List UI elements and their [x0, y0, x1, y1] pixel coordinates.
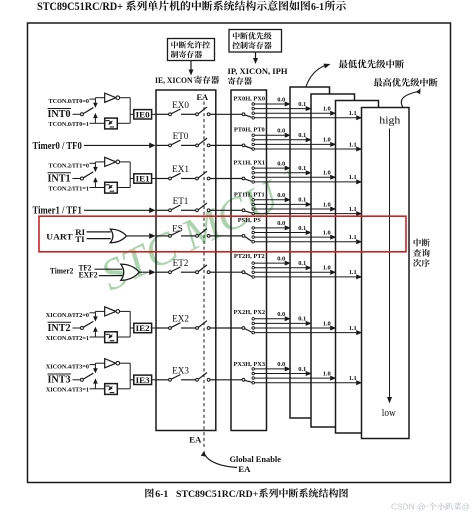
- svg-text:0.1: 0.1: [298, 197, 306, 204]
- curved arrow to lowest-priority label: [306, 66, 325, 87]
- svg-text:6-1: 6-1: [155, 489, 168, 500]
- enable switch EX3: [156, 379, 169, 381]
- wire from IE box to priority selector: [216, 379, 242, 381]
- selector switch PX0H, PX0: [242, 113, 245, 116]
- priority wire 0.0 of PX3H, PX3: [255, 368, 285, 370]
- svg-text:IE, XICON: IE, XICON: [155, 75, 193, 85]
- selector switch PT1H, PT1: [242, 209, 245, 212]
- svg-text:1.0: 1.0: [323, 320, 331, 327]
- svg-text:INT2: INT2: [48, 323, 71, 334]
- junction wire: [129, 98, 131, 124]
- enable switch ET2: [156, 271, 169, 273]
- priority wire 0.0 of PX0H, PX0: [255, 103, 285, 105]
- priority wire 0.1 of PX3H, PX3: [255, 373, 306, 375]
- priority wire 0.0 of PT2H, PT2: [255, 262, 285, 264]
- UART row highlight (red annotation rectangle): [39, 216, 406, 252]
- selector switch PX3H, PX3: [242, 378, 245, 381]
- switch INT0 mode select: [73, 113, 81, 115]
- wire from IE box to priority selector: [216, 209, 242, 211]
- switch INT3 mode select: [73, 379, 81, 381]
- priority wire 1.0 of PX3H, PX3: [255, 377, 331, 379]
- caption 图6-1 STC89C51RC/RD+ interrupt system diagram: [145, 488, 153, 497]
- EA switch: [196, 113, 199, 116]
- priority wire 1.1 of PSH, PS: [255, 241, 357, 243]
- svg-text:PX0H, PX0: PX0H, PX0: [233, 95, 265, 102]
- svg-text:XICON.0/IT2=1: XICON.0/IT2=1: [46, 335, 89, 342]
- EA global-enable dashed line: [203, 102, 205, 450]
- svg-text:0.1: 0.1: [298, 260, 306, 267]
- svg-text:INT0: INT0: [48, 109, 71, 120]
- EA switch: [196, 378, 199, 381]
- selector switch PX2H, PX2: [242, 327, 245, 330]
- svg-text:0.0: 0.0: [277, 192, 285, 199]
- wire IE3 to IE register: [152, 379, 156, 381]
- svg-text:UART: UART: [46, 231, 72, 241]
- svg-text:0.0: 0.0: [277, 311, 285, 318]
- svg-text:EXF2: EXF2: [79, 270, 99, 280]
- svg-text:Timer0 / TF0: Timer0 / TF0: [33, 141, 82, 152]
- priority wire 0.1 of PX0H, PX0: [255, 108, 306, 110]
- svg-text:0.1: 0.1: [298, 366, 306, 373]
- svg-text:@: @: [462, 502, 471, 512]
- svg-text:ET2: ET2: [173, 258, 189, 268]
- svg-text:0.0: 0.0: [277, 220, 285, 227]
- enable flag box IE3: [134, 375, 152, 384]
- box: interrupt priority control register (top label box B): [229, 30, 282, 53]
- svg-text:EA: EA: [189, 435, 202, 445]
- enable switch EX0: [156, 113, 169, 115]
- svg-text:low: low: [382, 408, 397, 419]
- priority column 0.1 (rect 2): [311, 94, 355, 427]
- interrupt polling order arrow (high to low): [389, 129, 391, 399]
- falling edge detector for INT1: [95, 187, 104, 189]
- EA switch: [196, 235, 199, 238]
- priority wire 0.0 of PX1H, PX1: [255, 167, 285, 169]
- svg-text:STC89C51RC/RD+: STC89C51RC/RD+: [37, 1, 123, 13]
- svg-text:0.1: 0.1: [298, 165, 306, 172]
- svg-text:PX3H, PX3: PX3H, PX3: [233, 361, 265, 368]
- wire Timer0 / TF0 to IE register: [84, 144, 150, 146]
- svg-text:IE2: IE2: [136, 323, 151, 333]
- inverter for INT0 level mode: [95, 97, 104, 99]
- priority wire 1.1 of PT2H, PT2: [255, 276, 357, 278]
- svg-text:EA: EA: [196, 93, 208, 102]
- inverter for INT1 level mode: [95, 161, 104, 163]
- svg-text:PX2H, PX2: PX2H, PX2: [233, 309, 265, 316]
- IP/XICON/IPH priority register box U2: [231, 90, 267, 431]
- wire from IE box to priority selector: [216, 178, 242, 180]
- svg-text:1.0: 1.0: [323, 229, 331, 236]
- svg-text:TCON.2/IT1=0: TCON.2/IT1=0: [49, 162, 90, 169]
- priority wire 0.0 of PT0H, PT0: [255, 134, 285, 136]
- EA switch: [196, 177, 199, 180]
- lower contact (edge mode): [90, 122, 96, 124]
- svg-text:EX0: EX0: [172, 100, 189, 110]
- upper contact (level mode): [90, 312, 96, 314]
- outer frame: [28, 23, 451, 483]
- svg-text:1.0: 1.0: [323, 106, 331, 113]
- enable switch EX2: [156, 327, 169, 329]
- svg-text:XICON.4/IT3=1: XICON.4/IT3=1: [46, 387, 89, 394]
- priority wire 0.0 of PT1H, PT1: [255, 199, 285, 201]
- svg-text:IE0: IE0: [136, 110, 151, 120]
- svg-text:INT1: INT1: [48, 173, 71, 184]
- priority wire 1.1 of PT1H, PT1: [255, 213, 357, 215]
- priority wire 0.1 of PX2H, PX2: [255, 322, 306, 324]
- svg-text:PSH, PS: PSH, PS: [238, 217, 262, 224]
- svg-text:PT2H, PT2: PT2H, PT2: [234, 253, 265, 260]
- svg-text:0.1: 0.1: [298, 101, 306, 108]
- priority wire 0.1 of PX1H, PX1: [255, 172, 306, 174]
- svg-text:1.1: 1.1: [349, 174, 357, 181]
- falling edge detector for INT2: [95, 336, 104, 338]
- EA switch: [196, 327, 199, 330]
- svg-text:1.1: 1.1: [349, 269, 357, 276]
- priority wire 0.0 of PX2H, PX2: [255, 318, 285, 320]
- svg-text:TCON.2/IT1=1: TCON.2/IT1=1: [49, 185, 90, 192]
- priority wire 1.1 of PX2H, PX2: [255, 332, 357, 334]
- selector switch PT2H, PT2: [242, 271, 245, 274]
- junction wire: [129, 162, 131, 188]
- svg-text:1.0: 1.0: [323, 137, 331, 144]
- svg-text:Timer2: Timer2: [50, 266, 74, 276]
- svg-text:Timer1 / TF1: Timer1 / TF1: [33, 206, 82, 217]
- svg-text:EX2: EX2: [172, 314, 189, 324]
- priority wire 1.0 of PSH, PS: [255, 236, 331, 238]
- priority wire 1.0 of PT0H, PT0: [255, 143, 331, 145]
- lower contact (edge mode): [90, 388, 96, 390]
- svg-text:ET1: ET1: [173, 196, 189, 206]
- priority wire 1.0 of PX1H, PX1: [255, 176, 331, 178]
- priority wire 1.1 of PX1H, PX1: [255, 181, 357, 183]
- enable switch ET0: [156, 144, 169, 146]
- svg-text:TCON.0/IT0=1: TCON.0/IT0=1: [49, 121, 90, 128]
- upper contact (level mode): [90, 364, 96, 366]
- enable flag box IE2: [134, 323, 152, 332]
- priority wire 0.1 of PT0H, PT0: [255, 139, 306, 141]
- svg-text:PT1H, PT1: PT1H, PT1: [234, 191, 265, 198]
- priority wire 1.1 of PX0H, PX0: [255, 117, 357, 119]
- EA switch: [196, 271, 199, 274]
- svg-text:IE3: IE3: [136, 375, 151, 385]
- enable switch EX1: [156, 178, 169, 180]
- svg-text:1.1: 1.1: [349, 206, 357, 213]
- svg-text:XICON.4/IT3=0: XICON.4/IT3=0: [46, 364, 89, 371]
- priority wire 1.0 of PT2H, PT2: [255, 271, 331, 273]
- lower contact (edge mode): [90, 336, 96, 338]
- curved arrow to highest-priority label: [401, 91, 420, 108]
- svg-text:0.0: 0.0: [277, 128, 285, 135]
- wire from IE box to priority selector: [216, 271, 242, 273]
- svg-text:EX3: EX3: [172, 366, 189, 376]
- svg-text:CSDN @: CSDN @: [391, 502, 426, 512]
- enable switch ET1: [156, 209, 169, 211]
- svg-text:1.1: 1.1: [349, 325, 357, 332]
- EA switch: [196, 144, 199, 147]
- wire IE2 to IE register: [152, 327, 156, 329]
- upper contact (level mode): [90, 98, 96, 100]
- priority wire 1.0 of PT1H, PT1: [255, 208, 331, 210]
- svg-text:TI: TI: [75, 234, 85, 244]
- falling edge detector for INT3: [95, 388, 104, 390]
- svg-text:1.0: 1.0: [323, 370, 331, 377]
- svg-text:high: high: [379, 116, 400, 127]
- falling edge detector for INT0: [95, 122, 104, 124]
- priority wire 1.1 of PT0H, PT0: [255, 148, 357, 150]
- label: interrupt query order (zhongduan chaxun cixu): [414, 238, 421, 246]
- watermark STC MCU Ltd: [93, 138, 352, 300]
- svg-text:6-1: 6-1: [311, 2, 324, 13]
- priority wire 0.1 of PSH, PS: [255, 232, 306, 234]
- priority wire 1.0 of PX0H, PX0: [255, 112, 331, 114]
- svg-text:1.1: 1.1: [349, 375, 357, 382]
- svg-text:0.1: 0.1: [298, 225, 306, 232]
- enable switch ES: [156, 235, 169, 237]
- wire IE1 to IE register: [152, 178, 156, 180]
- svg-text:0.0: 0.0: [277, 361, 285, 368]
- arrow from box B down to IP register: [255, 52, 257, 60]
- label: highest priority interrupt: [374, 78, 383, 87]
- svg-text:0.0: 0.0: [277, 160, 285, 167]
- svg-text:EA: EA: [238, 464, 251, 474]
- switch INT1 mode select: [73, 178, 81, 180]
- switch INT2 mode select: [73, 327, 81, 329]
- svg-text:1.0: 1.0: [323, 201, 331, 208]
- svg-text:1.0: 1.0: [323, 265, 331, 272]
- svg-text:PX1H, PX1: PX1H, PX1: [233, 160, 265, 167]
- box: interrupt enable control register (top label box A): [168, 39, 215, 61]
- global enable curved arrow: [205, 455, 237, 468]
- svg-text:1.1: 1.1: [349, 141, 357, 148]
- svg-text:0.1: 0.1: [298, 316, 306, 323]
- wire UART to IE register: [127, 235, 150, 237]
- svg-text:0.0: 0.0: [277, 96, 285, 103]
- svg-text:STC89C51RC/RD+: STC89C51RC/RD+: [176, 489, 259, 500]
- priority column 0.0 (rect 1): [290, 87, 330, 418]
- wire from IE box to priority selector: [216, 235, 242, 237]
- svg-text:IE1: IE1: [136, 174, 150, 184]
- svg-text:PT0H, PT0: PT0H, PT0: [234, 126, 265, 133]
- priority wire 0.0 of PSH, PS: [255, 227, 285, 229]
- upper contact (level mode): [90, 162, 96, 164]
- svg-text:1.0: 1.0: [323, 170, 331, 177]
- svg-text:IP, XICON, IPH: IP, XICON, IPH: [228, 66, 288, 76]
- svg-text:EX1: EX1: [172, 164, 189, 174]
- priority column 1.0 (rect 3): [336, 101, 379, 434]
- svg-text:Global Enable: Global Enable: [230, 455, 282, 464]
- lower contact (edge mode): [90, 187, 96, 189]
- arrow from box A down to IE register: [190, 61, 192, 72]
- enable flag box IE1: [134, 174, 152, 183]
- label: lowest priority interrupt: [339, 60, 348, 69]
- svg-text:0.0: 0.0: [277, 255, 285, 262]
- inverter for INT2 level mode: [95, 310, 104, 312]
- svg-text:ET0: ET0: [173, 131, 189, 141]
- svg-text:TCON.0/IT0=0: TCON.0/IT0=0: [49, 98, 90, 105]
- or-gate Timer2 (TF2|EXF2): [121, 264, 140, 280]
- wire from IE box to priority selector: [216, 144, 242, 146]
- priority wire 0.1 of PT2H, PT2: [255, 267, 306, 269]
- wire from IE box to priority selector: [216, 113, 242, 115]
- svg-text:1.1: 1.1: [349, 110, 357, 117]
- svg-text:INT3: INT3: [48, 375, 71, 386]
- wire Timer2 to IE register: [139, 271, 150, 273]
- priority column 1.1 (rect 4, polling order high->low): [362, 108, 410, 439]
- selector switch PSH, PS: [242, 235, 245, 238]
- inverter for INT3 level mode: [95, 362, 104, 364]
- junction wire: [129, 311, 131, 337]
- priority wire 1.1 of PX3H, PX3: [255, 382, 357, 384]
- svg-text:0.1: 0.1: [298, 132, 306, 139]
- selector switch PX1H, PX1: [242, 177, 245, 180]
- wire Timer1 / TF1 to IE register: [84, 209, 150, 211]
- svg-text:XICON.0/IT2=0: XICON.0/IT2=0: [46, 312, 89, 319]
- enable flag box IE0: [134, 110, 152, 119]
- selector switch PT0H, PT0: [242, 144, 245, 147]
- wire IE0 to IE register: [152, 113, 156, 115]
- EA switch: [196, 209, 199, 212]
- wire from IE box to priority selector: [216, 327, 242, 329]
- svg-text:1.1: 1.1: [349, 234, 357, 241]
- or-gate UART (RI|TI): [110, 229, 126, 243]
- IE/XICON enable-switch register box U1: [156, 90, 216, 431]
- junction wire: [129, 363, 131, 389]
- priority wire 1.0 of PX2H, PX2: [255, 327, 331, 329]
- priority wire 0.1 of PT1H, PT1: [255, 203, 306, 205]
